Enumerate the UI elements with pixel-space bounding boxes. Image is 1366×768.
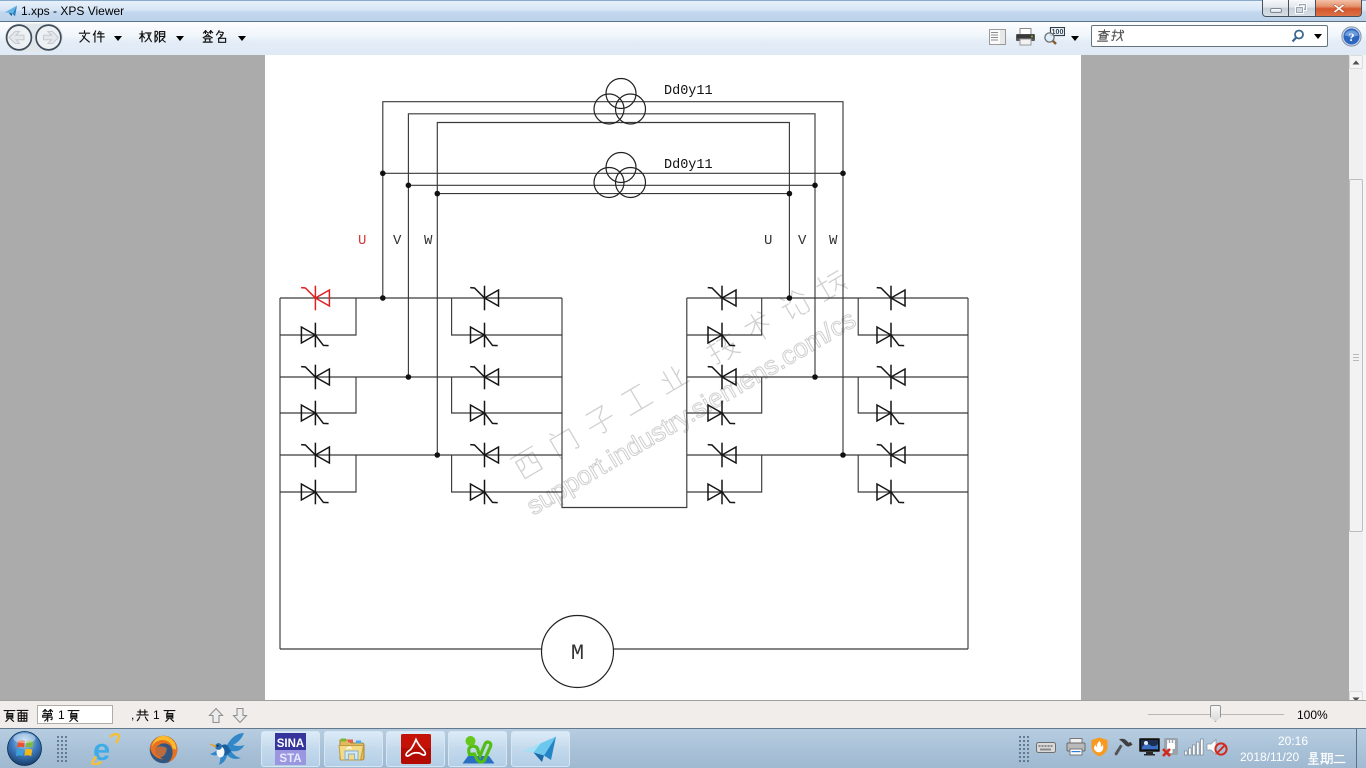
XPS paper plane icon	[523, 736, 559, 763]
bottom wire to motor left	[280, 648, 542, 650]
T2 secondary line F	[437, 193, 789, 195]
tray network-unplugged icon	[1162, 737, 1180, 757]
menu 权限	[139, 30, 152, 43]
Firefox icon	[148, 733, 180, 765]
group4 stub row 4	[858, 377, 968, 413]
placeholder 查找 (italic)	[1096, 29, 1111, 42]
thyristor V6	[301, 480, 328, 505]
thyristor V24	[877, 480, 904, 505]
menu 文件	[78, 30, 91, 43]
show desktop button	[1356, 729, 1366, 768]
search box	[1091, 25, 1328, 47]
toolbar right: page-layout icon	[989, 29, 1006, 45]
start orb	[6, 730, 43, 767]
phase U feeder left: T1 line A + drop	[383, 102, 843, 455]
thyristor V8	[471, 323, 498, 348]
status bar	[0, 700, 1366, 728]
svg-text:V: V	[798, 233, 807, 249]
svg-text:M: M	[571, 641, 584, 666]
circuit schematic: 12-pulse reversible thyristor DC drive	[265, 55, 1081, 700]
left bridge rail 3	[280, 376, 562, 378]
tray 360 shield icon	[1091, 737, 1108, 757]
svg-text:SINA: SINA	[277, 738, 304, 750]
svg-text:?: ?	[1349, 30, 1355, 44]
right bridge rail 5	[687, 454, 968, 456]
left bridge right bus + link wire to right bridge	[562, 298, 687, 508]
label 页面	[3, 709, 16, 722]
motor M	[542, 616, 614, 688]
clock time	[1278, 734, 1308, 748]
zoom slider thumb	[1210, 705, 1221, 722]
toolbar	[0, 21, 1366, 55]
thyristor V21	[877, 365, 905, 390]
junction dots phase-to-bridge left	[380, 295, 386, 301]
thyristor V23	[877, 443, 905, 468]
tray display icon	[1139, 738, 1160, 756]
group2 stub row 4	[452, 377, 562, 413]
thyristor V9	[470, 365, 498, 390]
tray printer icon	[1066, 738, 1086, 756]
tray signal bars icon	[1184, 738, 1204, 756]
svg-text:V: V	[393, 233, 402, 249]
taskbar	[0, 728, 1366, 768]
Explorer folder icon	[337, 733, 370, 765]
bottom wire to motor right	[613, 648, 968, 650]
group4 stub row 2	[858, 298, 968, 335]
thyristor V3	[301, 365, 329, 390]
toolbar right: zoom 100 icon	[1043, 27, 1065, 47]
CJK glyph path definitions (hand-drawn approximations)	[0, 0, 1, 1]
svg-text:support.industry.siemens.com/c: support.industry.siemens.com/cs	[521, 304, 861, 521]
thyristor V19	[877, 286, 905, 311]
thyristor V14	[708, 323, 735, 348]
phase W feeder: T1 line C + drops	[437, 123, 789, 456]
IE icon	[90, 733, 122, 765]
tray grip dots	[1018, 735, 1030, 763]
menu 签名	[201, 30, 214, 43]
svg-text:U: U	[764, 233, 772, 249]
Adobe Reader icon	[400, 733, 432, 765]
grip dots	[56, 735, 68, 763]
thyristor V16	[708, 401, 735, 426]
junction dots on T2 line F	[435, 191, 441, 197]
transformer U1	[594, 79, 646, 125]
thyristor V17	[708, 443, 736, 468]
right bridge right bus	[967, 298, 969, 649]
T2 secondary line E	[408, 184, 815, 186]
Thunder hummingbird icon	[208, 732, 245, 766]
tray keyboard icon	[1036, 739, 1056, 755]
thyristor V15	[708, 365, 736, 390]
right bridge rail 3	[687, 376, 968, 378]
left bridge left bus	[279, 298, 281, 649]
thyristor V5	[301, 443, 329, 468]
, 共 1 页	[131, 708, 134, 722]
group2 stub row 6	[452, 455, 562, 492]
thyristor V2	[301, 323, 328, 348]
thyristor V18	[708, 480, 735, 505]
title bar	[0, 0, 1366, 21]
thyristor V12	[471, 480, 498, 505]
phase V feeder: T1 line B + drops	[408, 114, 815, 377]
group1 stub row 4	[280, 377, 356, 413]
help button	[1341, 26, 1362, 47]
SINA icon	[275, 733, 306, 765]
taskbar button frames	[261, 731, 320, 767]
junction dots phase-to-bridge right	[787, 295, 793, 301]
thyristor V1 (red)	[301, 286, 329, 311]
textbox 第 1 页	[41, 709, 54, 722]
thyristor V7	[470, 286, 498, 311]
group3 stub row 4	[687, 377, 762, 413]
thyristor V22	[877, 401, 904, 426]
junction dots on T2 line E	[406, 183, 412, 189]
tray muted speaker icon	[1206, 737, 1228, 757]
group4 stub row 6	[858, 455, 968, 492]
svg-text:Dd0y11: Dd0y11	[664, 84, 713, 99]
thyristor V11	[470, 443, 498, 468]
green messenger icon	[462, 733, 495, 765]
svg-text:STA: STA	[279, 753, 301, 765]
scrollbar	[1349, 55, 1363, 705]
page down arrow	[232, 707, 248, 724]
group2 stub row 2	[452, 298, 562, 335]
transformer U2	[594, 153, 646, 198]
group1 stub row 6	[280, 455, 356, 492]
left bridge rail 5	[280, 454, 562, 456]
zoom slider track	[1148, 714, 1284, 715]
svg-text:e: e	[93, 733, 110, 765]
tray hammer icon	[1114, 738, 1134, 756]
T2 secondary line D	[383, 172, 843, 174]
thyristor V10	[471, 401, 498, 426]
page up arrow	[208, 707, 224, 724]
group3 stub row 6	[687, 455, 762, 492]
junction dots on T2 line D	[380, 171, 386, 177]
thyristor V20	[877, 323, 904, 348]
watermark	[502, 265, 871, 521]
svg-text:W: W	[424, 233, 433, 249]
svg-text:Dd0y11: Dd0y11	[664, 158, 713, 173]
thyristor V13	[708, 286, 736, 311]
clock date 2018/11/20 星期二	[1240, 750, 1299, 764]
group1 stub row 2	[280, 298, 356, 335]
group3 stub row 2	[687, 298, 762, 335]
svg-text:U: U	[358, 233, 366, 249]
left bridge rail 1	[280, 297, 562, 299]
thyristor V4	[301, 401, 328, 426]
toolbar right: printer icon	[1016, 28, 1035, 46]
right bridge rail 1	[687, 297, 968, 299]
svg-text:W: W	[829, 233, 838, 249]
